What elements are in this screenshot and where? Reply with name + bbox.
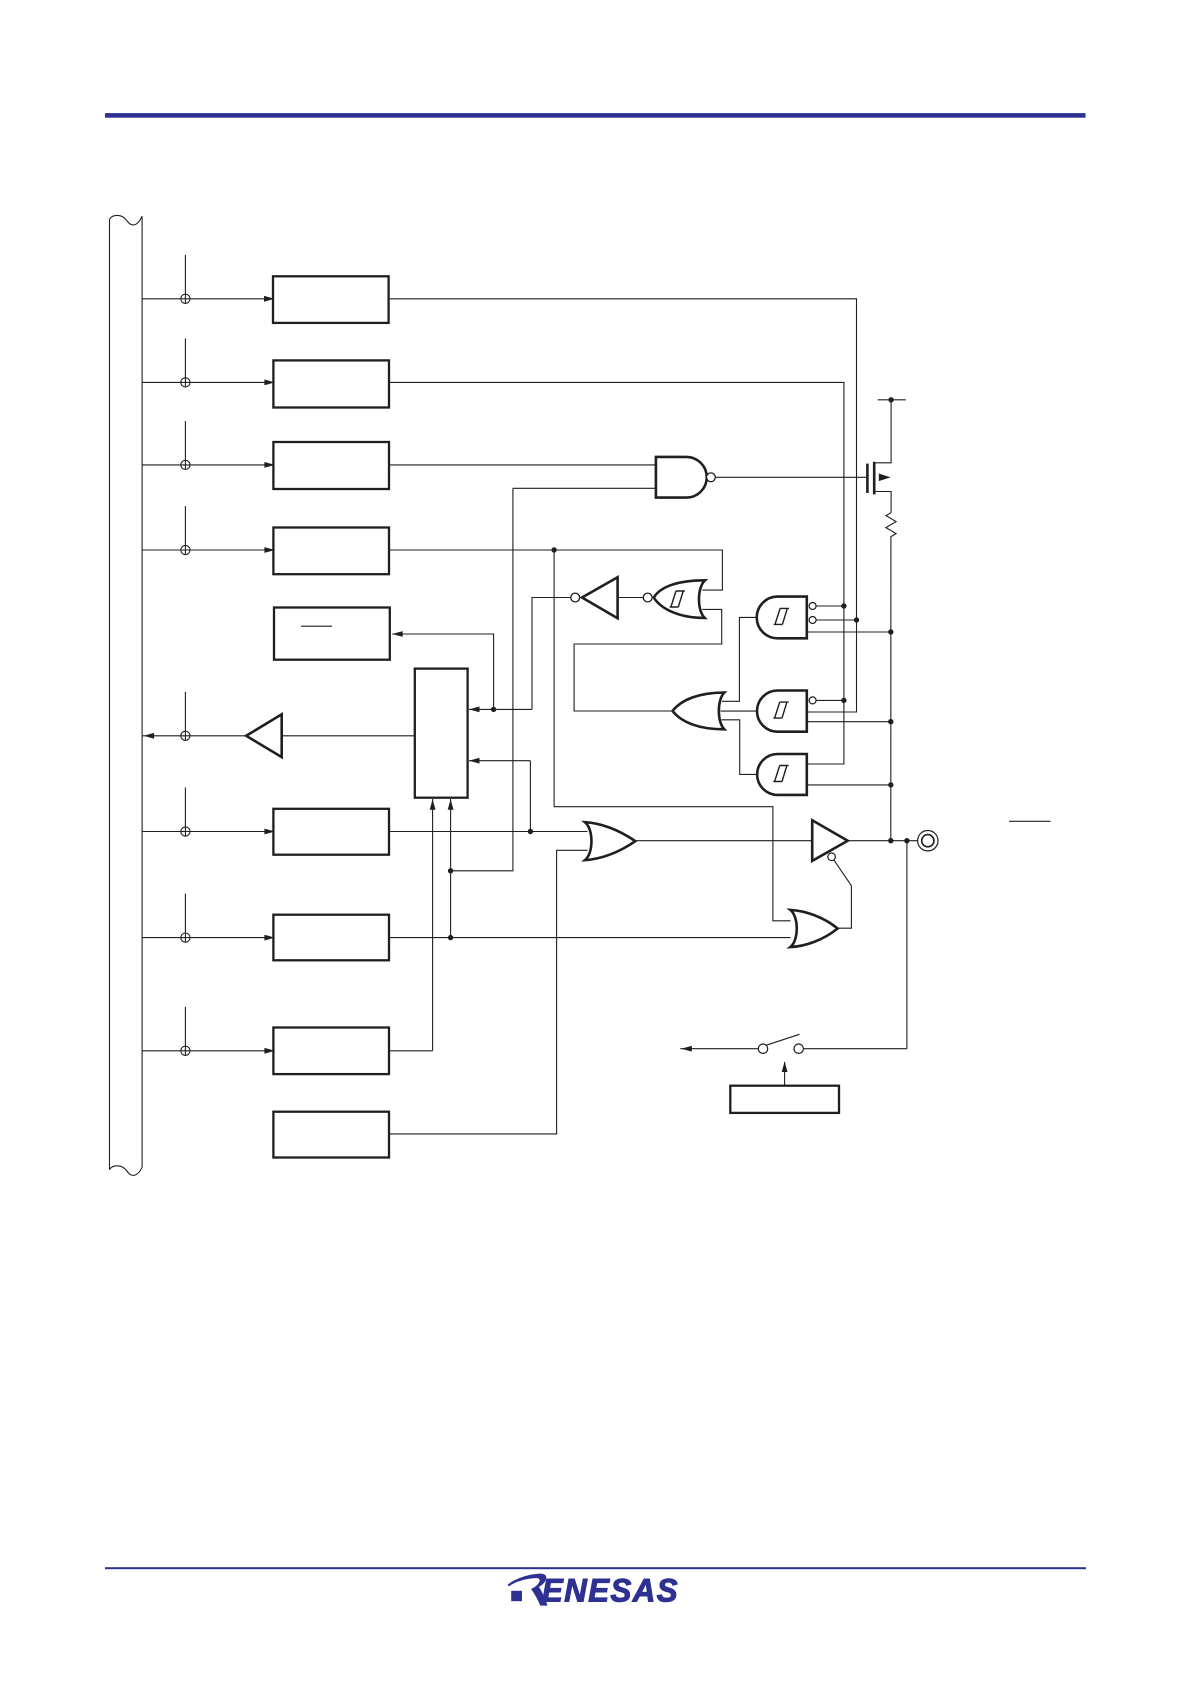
svg-text:ENESAS: ENESAS — [542, 1572, 679, 1608]
